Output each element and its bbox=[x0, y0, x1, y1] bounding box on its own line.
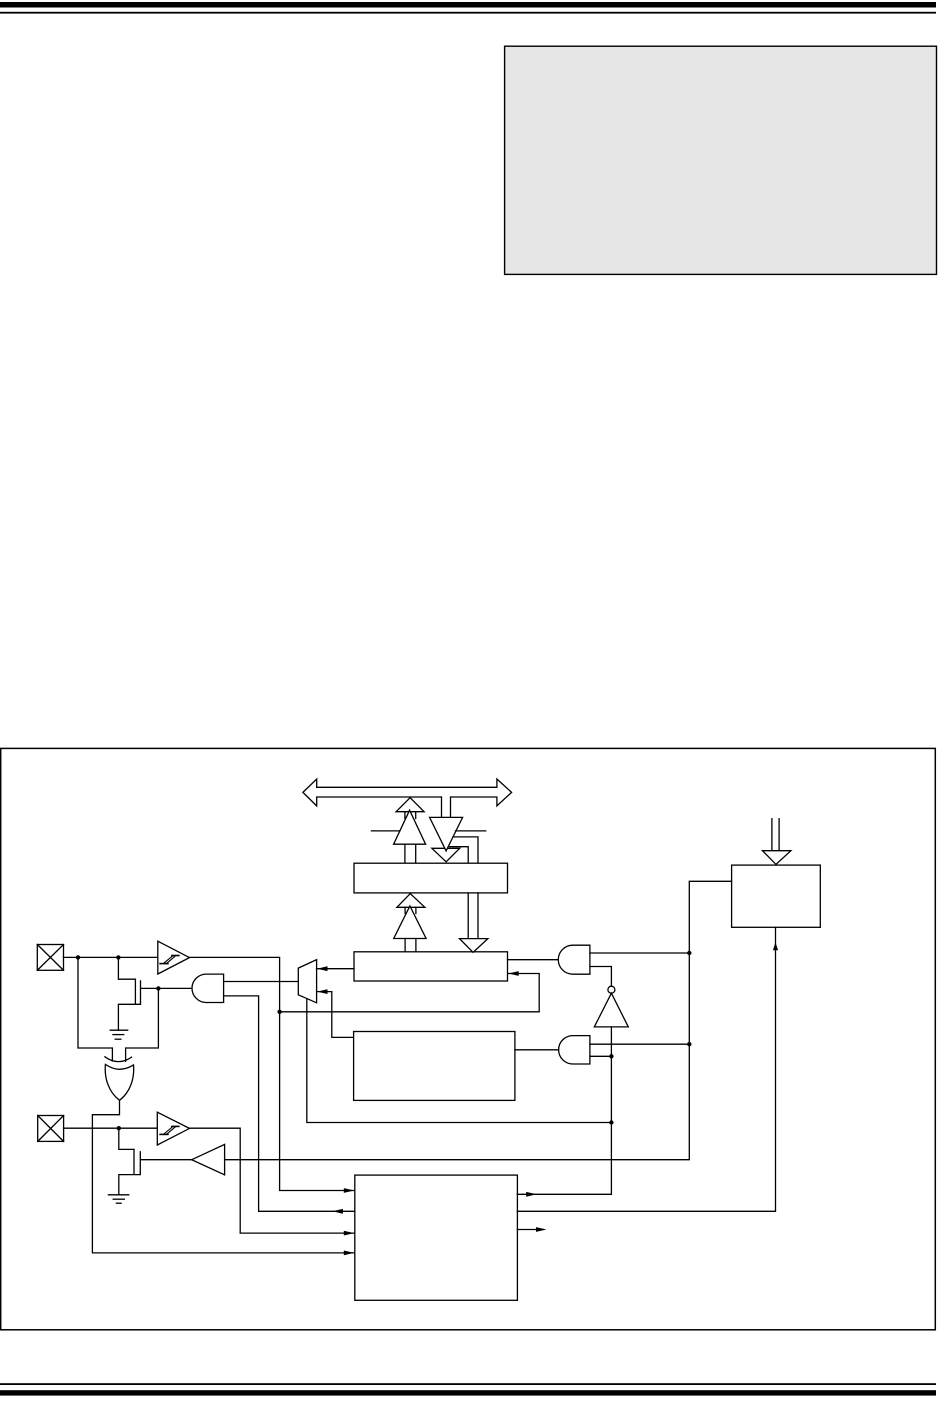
ground GND1 bbox=[110, 1030, 128, 1039]
wire: read enable stub bbox=[371, 830, 400, 832]
wire: Q1 drain net bbox=[141, 987, 192, 989]
wire: G5 input 2 to inverter bbox=[590, 967, 612, 987]
arrowhead: write into data latch bbox=[432, 848, 460, 862]
arrow: enable input into control box bbox=[763, 819, 791, 865]
wire: XOR output to R5 bbox=[92, 1100, 354, 1255]
wire: schmitt2 output down to R5 bbox=[190, 1128, 355, 1235]
latch R2 (TRIS latch) bbox=[354, 952, 508, 981]
wire: mux output to AND gate G2 bbox=[224, 981, 299, 983]
inverter U6 bbox=[594, 986, 628, 1027]
junction I bbox=[609, 1120, 613, 1124]
AND gate G2 bbox=[192, 974, 224, 1002]
AND gate G6 bbox=[559, 1036, 590, 1064]
wire: mux select line bbox=[307, 999, 612, 1123]
wire: TRIS write elbow (upper) bbox=[450, 837, 479, 863]
junction A bbox=[76, 955, 80, 959]
pin P2 (X pad) bbox=[38, 1116, 64, 1142]
wire: G5 input 1 bbox=[590, 952, 689, 954]
buffer U7 (TRIS read) bbox=[394, 906, 426, 939]
mux M1 bbox=[298, 960, 316, 1003]
junction B bbox=[116, 955, 120, 959]
junction D bbox=[156, 986, 160, 990]
pin P1 (X pad) bbox=[37, 945, 63, 971]
wire: U5 input from enable net / R4 bbox=[225, 881, 732, 1159]
footer thick rule bbox=[0, 1390, 936, 1395]
XOR gate G4 bbox=[105, 1057, 134, 1101]
junction H bbox=[609, 1054, 613, 1058]
wire: drain net to XOR input B bbox=[126, 988, 159, 1061]
arrowhead: write into TRIS latch bbox=[460, 939, 488, 953]
latch R1 (data latch) bbox=[354, 863, 508, 893]
wire: Q1 source to ground bbox=[118, 1002, 140, 1030]
header thick rule bbox=[0, 2, 936, 8]
wire: G2 input B from R5 bbox=[224, 996, 355, 1214]
wire: port write shaft from data bus bbox=[442, 796, 451, 818]
box R5 (timer/counter logic) bbox=[355, 1175, 518, 1300]
junction C bbox=[277, 1010, 281, 1014]
wire: G6 output to R3 bbox=[515, 1049, 559, 1051]
ground GND2 bbox=[108, 1195, 128, 1203]
footer thin rule bbox=[0, 1383, 936, 1385]
wire: write enable stub bbox=[456, 830, 486, 832]
arrowhead: port read into data bus bbox=[396, 798, 424, 819]
figure frame bbox=[1, 748, 936, 1329]
wire: R5 clock output bbox=[517, 1227, 546, 1232]
wire: Q2 drain / buffer U5 output bbox=[141, 1159, 192, 1161]
note box (gray) bbox=[505, 46, 937, 274]
AND gate G5 bbox=[558, 945, 590, 974]
junction F bbox=[687, 951, 691, 955]
header thin rule bbox=[0, 12, 936, 14]
schmitt buffer U3 bbox=[158, 941, 190, 974]
arrowhead: read from data latch bbox=[397, 894, 425, 914]
buffer U1 (port read tri-state) bbox=[394, 810, 426, 844]
wire: TRIS latch to mux input bbox=[317, 966, 354, 971]
wire: TRIS write shaft (lower) bbox=[468, 893, 478, 939]
register R3 bbox=[354, 1032, 515, 1101]
data bus bidirectional arrow bbox=[303, 779, 512, 806]
wire: G6 input 2 bbox=[590, 1055, 612, 1057]
transistor Q1 bbox=[135, 979, 140, 1004]
wire: enable net vertical to R5 output bbox=[517, 1027, 611, 1197]
wire: G6 input 1 bbox=[590, 1043, 689, 1045]
wire: pin1 net to XOR input A bbox=[78, 957, 112, 1061]
wire: pin1 net to TRIS latch read input bbox=[280, 971, 540, 1012]
wire: schmitt1 output down to R5 bbox=[190, 957, 355, 1193]
wire: pin1 to Q1 gate bbox=[118, 957, 135, 979]
wire: pin2 net bbox=[64, 1127, 158, 1129]
transistor Q2 bbox=[134, 1149, 140, 1174]
wire: G5 output to TRIS latch bbox=[508, 959, 559, 961]
wire: shaft buffer to TRIS latch bbox=[405, 939, 416, 952]
wire: R5 to oscillator control box bbox=[517, 927, 778, 1211]
buffer U5 (oscillator feedback driver) bbox=[192, 1144, 225, 1174]
buffer U2 (port write driver) bbox=[430, 817, 463, 851]
wire: pin1 net bbox=[64, 956, 158, 958]
wire: Q2 source to ground bbox=[119, 1173, 141, 1195]
wire: read shaft into data latch bbox=[405, 844, 416, 863]
schmitt buffer U4 bbox=[157, 1112, 189, 1145]
wire: pin2 to Q2 gate bbox=[119, 1128, 134, 1149]
wire: R3 to mux input bbox=[317, 989, 354, 1037]
junction G bbox=[687, 1042, 691, 1046]
junction E bbox=[117, 1126, 121, 1130]
box R4 (oscillator enable control) bbox=[732, 865, 821, 927]
